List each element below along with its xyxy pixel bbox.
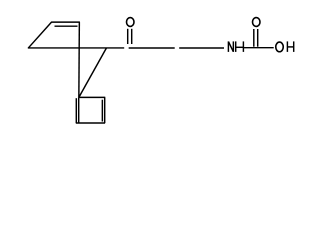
bond CH2 to NH bbox=[179, 47, 224, 49]
right C=O double bond line 2 bbox=[257, 29, 259, 47]
atom label O (left carbonyl oxygen) bbox=[127, 18, 135, 27]
left C=O double bond line 1 bbox=[127, 29, 129, 44]
square left inner edge bbox=[78, 97, 80, 123]
atom label NH (nitrogen) bbox=[228, 41, 243, 52]
bond ring top double bond outer bbox=[51, 21, 80, 23]
atom label OH (hydroxyl) bbox=[276, 41, 294, 52]
square right outer edge bbox=[104, 97, 106, 123]
right C=O double bond line 1 bbox=[253, 29, 255, 47]
bond triangle diagonal bbox=[79, 48, 107, 97]
square top edge bbox=[79, 96, 105, 98]
bond long vertical bbox=[78, 22, 81, 97]
atom label O (right carbonyl oxygen) bbox=[253, 18, 261, 27]
bond carbonyl to CH2 bbox=[129, 47, 175, 49]
bond long horizontal bbox=[28, 47, 124, 49]
left C=O double bond line 2 bbox=[131, 29, 133, 44]
square bottom edge bbox=[76, 122, 105, 124]
bond NH to carboxyl C to OH bbox=[244, 47, 274, 49]
bond ring diagonal left bbox=[28, 22, 51, 48]
square left outer double-bond line bbox=[75, 98, 77, 123]
square right inner double-bond line bbox=[101, 100, 103, 122]
bond ring top double bond inner bbox=[55, 25, 78, 27]
